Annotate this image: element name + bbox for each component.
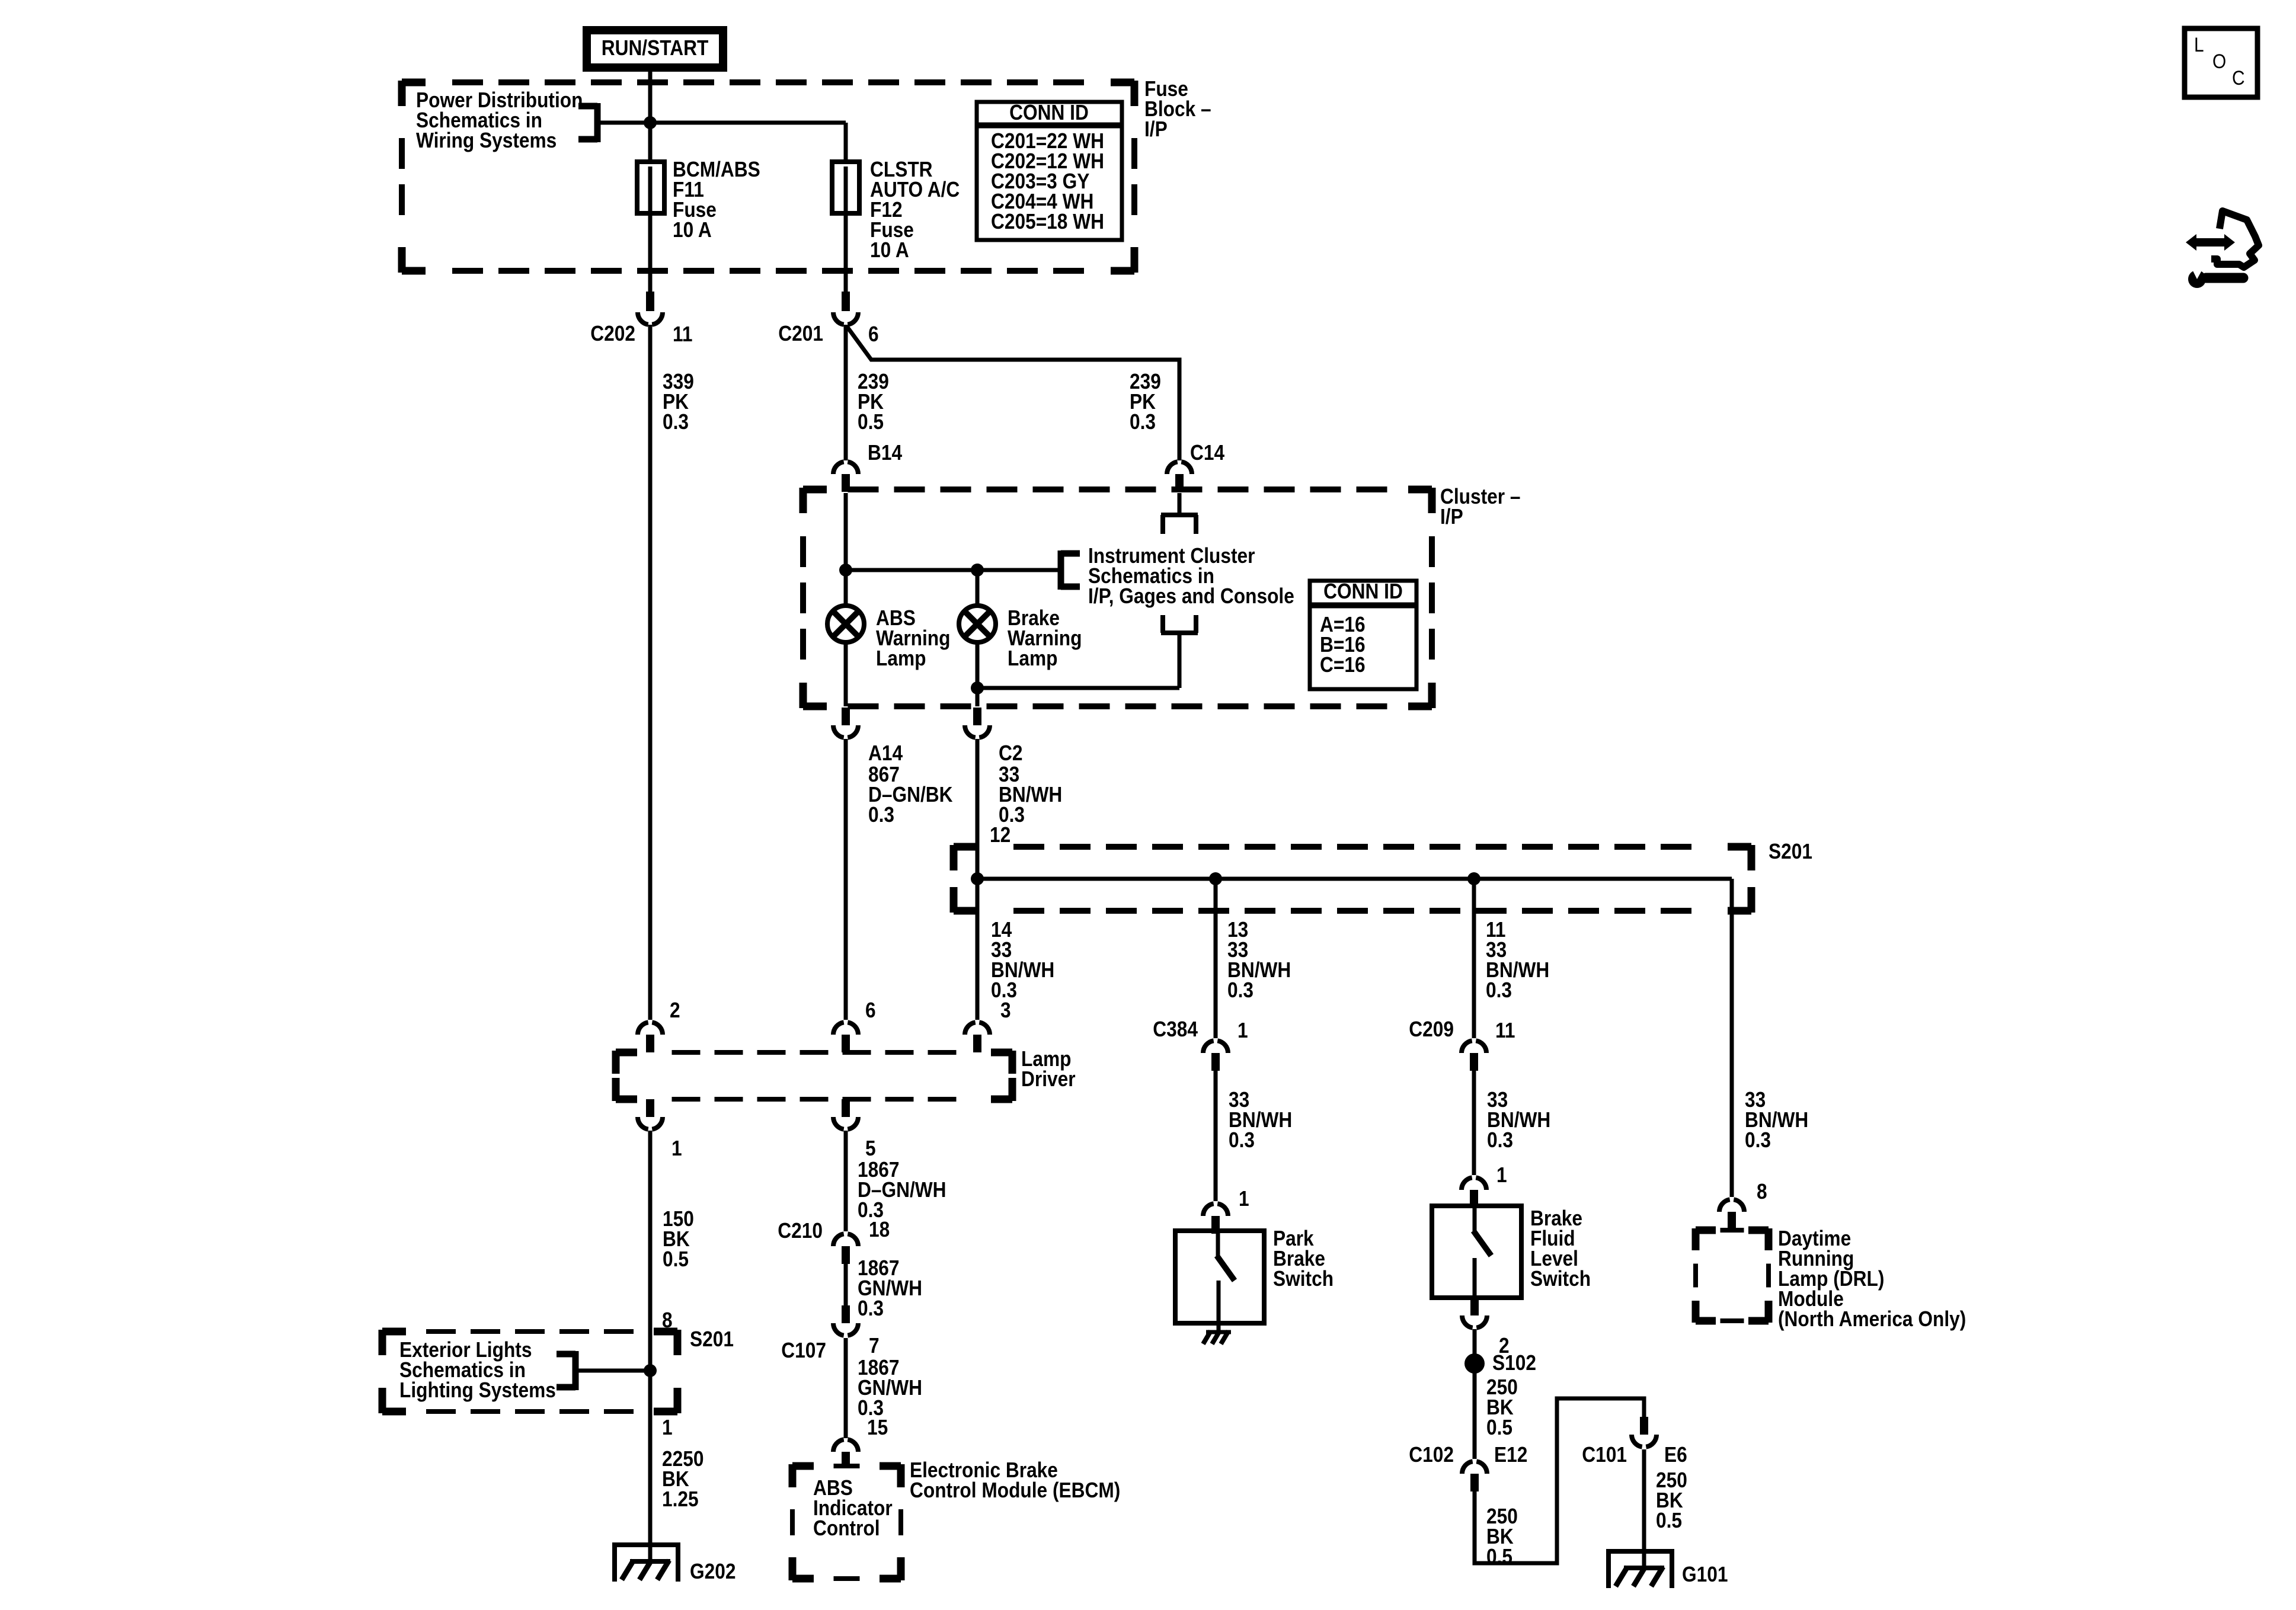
connector C209 pin 11 [1462, 1041, 1486, 1071]
wire C210 to C107 [844, 1264, 848, 1305]
park brake switch contacts [1217, 1231, 1235, 1331]
connector C14 [1167, 462, 1192, 492]
label Fuse Block - I/P [1144, 77, 1211, 141]
connector lamp driver pin 5 [833, 1099, 858, 1129]
svg-text:RUN/START: RUN/START [602, 36, 709, 60]
label E6 [1664, 1443, 1687, 1467]
label pin 1 (below S201) [662, 1416, 673, 1439]
label C102 [1409, 1443, 1454, 1467]
connector fork under C14 [1161, 493, 1198, 534]
wire 867 D-GN/BK [844, 739, 848, 1020]
connector C101 E6 [1632, 1417, 1657, 1447]
svg-text:18: 18 [869, 1218, 890, 1241]
label pin 6 (lamp driver) [865, 998, 876, 1022]
fuse block CONN ID table [977, 101, 1122, 240]
label 33 BN/WH 0.3 (brake fluid) [1487, 1088, 1550, 1152]
wire 239 PK 0.5 to cluster B14 [844, 325, 848, 460]
svg-text:CONN ID: CONN ID [1009, 101, 1089, 124]
svg-text:L: L [2194, 33, 2204, 56]
svg-text:0.3: 0.3 [1745, 1128, 1771, 1152]
label 239 PK 0.3 (C14 branch) [1130, 370, 1161, 434]
label 250 BK 0.5 (upper) [1486, 1375, 1518, 1439]
wire fuse F12 to connector C201 [842, 213, 850, 311]
ABS warning lamp [827, 570, 864, 706]
svg-text:Wiring Systems: Wiring Systems [416, 129, 557, 152]
wire pin5 to C210 [844, 1131, 848, 1231]
svg-text:15: 15 [867, 1416, 888, 1439]
svg-text:1: 1 [1237, 1019, 1248, 1042]
label 2250 BK 1.25 [662, 1447, 703, 1511]
svg-text:C107: C107 [781, 1339, 826, 1362]
label pin 8 (DRL) [1757, 1180, 1767, 1204]
svg-text:C210: C210 [778, 1219, 823, 1243]
svg-text:11: 11 [1495, 1019, 1515, 1042]
cluster - I/P dashed box [803, 488, 1432, 708]
connector lamp driver pin 3 [965, 1022, 990, 1052]
wire S201 through box [648, 1331, 653, 1411]
label pin 8 (S201) [662, 1308, 673, 1332]
node junction bus to brake fluid [1467, 872, 1480, 885]
wire 2250 BK to ground [648, 1411, 653, 1545]
wire C384 to park brake switch [1214, 1071, 1218, 1201]
svg-text:C: C [2232, 66, 2245, 89]
svg-text:0.5: 0.5 [1656, 1509, 1682, 1532]
bracket to instrument cluster schematics [1061, 550, 1080, 590]
connector brake fluid switch pin 1 [1462, 1177, 1486, 1208]
cluster CONN ID table [1310, 580, 1416, 689]
ground G202 [612, 1545, 680, 1582]
svg-text:C101: C101 [1582, 1443, 1627, 1467]
connector C107 pin 7 [833, 1305, 858, 1336]
label 339 PK 0.3 [663, 370, 694, 434]
label pin 2 [670, 998, 680, 1022]
label 250 BK 0.5 (E6) [1656, 1468, 1687, 1532]
node junction brake lamp wire [971, 681, 984, 694]
svg-text:I/P: I/P [1440, 505, 1463, 529]
svg-text:10 A: 10 A [870, 238, 909, 262]
label 1867 GN/WH 0.3 (upper) [858, 1256, 922, 1320]
svg-text:8: 8 [1757, 1180, 1767, 1204]
connector DRL pin 8 [1719, 1199, 1744, 1230]
label C14 [1190, 441, 1224, 465]
svg-text:Control Module (EBCM): Control Module (EBCM) [910, 1478, 1120, 1502]
fuse block - I/P dashed box [402, 81, 1134, 273]
connector brake fluid switch pin 2 [1462, 1298, 1487, 1328]
label pin 1 (brake fluid switch) [1496, 1163, 1507, 1187]
svg-text:S201: S201 [1769, 840, 1812, 863]
wire bracket to splice [575, 1369, 650, 1373]
svg-text:C202: C202 [590, 322, 635, 345]
connector lamp driver pin 1 [638, 1099, 663, 1129]
splice bus wire [977, 879, 1732, 1197]
node junction bus to park brake [1209, 872, 1222, 885]
svg-text:I/P: I/P [1144, 117, 1168, 141]
svg-text:CONN ID: CONN ID [1323, 580, 1403, 603]
svg-text:0.3: 0.3 [858, 1297, 884, 1320]
svg-text:1: 1 [1496, 1163, 1507, 1187]
label pin 7 (C107) [869, 1334, 880, 1358]
svg-text:0.3: 0.3 [1227, 978, 1253, 1002]
connector C201 pin 6 [833, 312, 858, 325]
svg-text:0.3: 0.3 [1130, 410, 1156, 434]
svg-text:0.5: 0.5 [858, 410, 884, 434]
svg-text:6: 6 [865, 998, 876, 1022]
fuse F11 [637, 162, 664, 213]
splice S102 [1464, 1353, 1485, 1374]
connector C2 pin 12 [965, 708, 990, 738]
svg-text:C14: C14 [1190, 441, 1224, 465]
label 1867 GN/WH 0.3 (lower) [858, 1356, 922, 1420]
label C202 [590, 322, 635, 345]
svg-text:11: 11 [673, 322, 692, 346]
label pin 5 (lamp driver) [865, 1137, 876, 1160]
svg-text:S102: S102 [1492, 1351, 1536, 1375]
svg-text:I/P, Gages and Console: I/P, Gages and Console [1088, 584, 1294, 608]
label S201 (left) [690, 1327, 734, 1351]
label Brake Warning Lamp [1008, 606, 1082, 670]
svg-text:0.5: 0.5 [1486, 1416, 1512, 1439]
wire C107 to EBCM [844, 1338, 848, 1438]
svg-text:1: 1 [1239, 1187, 1249, 1211]
label C2 [999, 741, 1022, 765]
label 33 BN/WH 0.3 12 [990, 763, 1062, 847]
wire E6 to ground G101 [1642, 1449, 1646, 1551]
label Park Brake Switch [1273, 1227, 1334, 1291]
label ABS Warning Lamp [876, 606, 950, 670]
svg-text:Switch: Switch [1530, 1267, 1591, 1291]
label 13 33 BN/WH 0.3 [1227, 918, 1291, 1002]
wire C209 to brake fluid switch [1472, 1071, 1476, 1175]
svg-text:5: 5 [865, 1137, 876, 1160]
svg-text:2: 2 [670, 998, 680, 1022]
svg-text:S201: S201 [690, 1327, 734, 1351]
svg-text:E6: E6 [1664, 1443, 1687, 1467]
svg-text:1: 1 [662, 1416, 673, 1439]
label Exterior Lights Schematics [399, 1338, 556, 1402]
connector C210 pin 18 [833, 1234, 858, 1264]
ground below park brake switch [1203, 1331, 1231, 1344]
node junction bus at C2 wire [971, 872, 984, 885]
svg-text:C=16: C=16 [1320, 653, 1366, 677]
wire fuse F11 to connector C202 [646, 213, 654, 311]
ground G101 [1606, 1551, 1674, 1588]
service manual icon [2186, 211, 2259, 288]
DRL module dashed box [1696, 1228, 1769, 1323]
bracket to exterior lights schematics [557, 1351, 575, 1390]
label 250 BK 0.5 (lower) [1486, 1505, 1518, 1569]
connector lamp driver pin 6 [833, 1022, 858, 1052]
label 150 BK 0.5 [663, 1207, 694, 1271]
svg-text:0.5: 0.5 [663, 1247, 689, 1271]
label Cluster - I/P [1440, 485, 1520, 529]
lamp driver dashed box [616, 1051, 1012, 1101]
wire RUN/START down to fuse F11 [648, 68, 653, 164]
brake fluid level switch box [1432, 1206, 1521, 1298]
label C384 [1153, 1017, 1198, 1041]
svg-text:C384: C384 [1153, 1017, 1198, 1041]
label Instrument Cluster Schematics [1088, 544, 1294, 608]
svg-text:0.3: 0.3 [663, 410, 689, 434]
connector fork to brake lamp branch [977, 615, 1198, 688]
label CLSTR AUTO A/C F12 Fuse 10 A [870, 158, 960, 262]
label pin 6 [868, 322, 879, 346]
EBCM ABS indicator control dashed box [792, 1464, 901, 1580]
power rail RUN/START box [587, 30, 723, 68]
connector A14 [833, 708, 858, 738]
svg-text:C2: C2 [999, 741, 1022, 765]
label Power Distribution Schematics in Wiring Systems [416, 88, 583, 152]
brake fluid switch contacts [1473, 1206, 1491, 1298]
LOC legend box [2185, 28, 2257, 97]
svg-text:G202: G202 [690, 1560, 736, 1583]
svg-text:Driver: Driver [1021, 1067, 1076, 1091]
connector C202 pin 11 [638, 312, 663, 325]
svg-text:12: 12 [990, 823, 1011, 847]
connector B14 [833, 462, 858, 492]
wire S102 to C102 [1473, 1378, 1477, 1459]
node junction brake lamp top [971, 564, 984, 577]
label E12 [1494, 1443, 1527, 1467]
node junction on RUN/START feed [644, 116, 657, 129]
svg-text:Lamp: Lamp [876, 646, 926, 670]
label pin 15 (EBCM) [867, 1416, 888, 1439]
label G101 [1682, 1563, 1728, 1586]
connector C384 pin 1 [1203, 1041, 1228, 1071]
wire bus to C209 [1472, 879, 1476, 1038]
label Lamp Driver [1021, 1047, 1076, 1091]
svg-text:C201: C201 [778, 322, 823, 345]
svg-text:3: 3 [1000, 998, 1011, 1022]
node junction ABS lamp [839, 564, 852, 577]
svg-text:6: 6 [868, 322, 879, 346]
svg-text:C209: C209 [1409, 1017, 1454, 1041]
label 11 33 BN/WH 0.3 [1486, 918, 1549, 1002]
label pin 11 (C209) [1495, 1019, 1515, 1042]
label 867 D-GN/BK 0.3 [868, 763, 953, 827]
label C107 [781, 1339, 826, 1362]
label Electronic Brake Control Module (EBCM) [910, 1458, 1120, 1502]
label Daytime Running Lamp (DRL) Module [1778, 1227, 1966, 1331]
svg-text:Control: Control [813, 1516, 880, 1540]
svg-text:1: 1 [671, 1137, 682, 1160]
label 33 BN/WH 0.3 (park) [1229, 1088, 1292, 1152]
label S102 [1492, 1351, 1536, 1375]
svg-text:7: 7 [869, 1334, 880, 1358]
connector park brake switch pin 1 [1203, 1204, 1228, 1234]
fuse F12 [832, 162, 859, 213]
wire bus to C384 [1214, 879, 1218, 1038]
splice S201 dashed box [954, 845, 1751, 913]
brake warning lamp [959, 570, 996, 706]
label A14 [868, 741, 903, 765]
wire feed down to fuse F12 [844, 123, 848, 164]
label pin 3 [1000, 998, 1011, 1022]
wire 150 BK to S201 splice [648, 1131, 653, 1331]
park brake switch box [1175, 1231, 1264, 1323]
label C101 [1582, 1443, 1627, 1467]
label 5 1867 D-GN/WH 0.3 [858, 1158, 946, 1222]
wire feed from power distribution [597, 121, 846, 125]
svg-text:Lamp: Lamp [1008, 646, 1057, 670]
label pin 1 (park brake switch) [1239, 1187, 1249, 1211]
wire branch C201 to C14 [847, 327, 1179, 460]
label ABS Indicator Control [813, 1476, 893, 1540]
wire 339 PK from C202 to lamp driver [648, 325, 653, 1020]
svg-text:C102: C102 [1409, 1443, 1454, 1467]
svg-text:G101: G101 [1682, 1563, 1728, 1586]
connector EBCM pin 15 [833, 1439, 858, 1467]
label 18 [869, 1218, 890, 1241]
svg-text:E12: E12 [1494, 1443, 1527, 1467]
svg-text:A14: A14 [868, 741, 903, 765]
svg-text:1.25: 1.25 [662, 1487, 699, 1511]
connector lamp driver pin 2 [638, 1022, 663, 1052]
bracket to power distribution schematics [578, 103, 597, 142]
svg-text:0.3: 0.3 [868, 803, 894, 827]
label pin 11 [673, 322, 692, 346]
svg-text:C205=18 WH: C205=18 WH [991, 210, 1104, 233]
label B14 [868, 441, 902, 465]
node junction S201 splice [644, 1364, 657, 1377]
wire switch to S102 [1473, 1329, 1477, 1378]
label pin 1 (lamp driver) [671, 1137, 682, 1160]
wire C102 to C101 routing [1475, 1398, 1644, 1563]
label C209 [1409, 1017, 1454, 1041]
svg-text:10 A: 10 A [673, 218, 712, 242]
splice S201 dashed box (exterior lights) [382, 1330, 677, 1413]
svg-text:(North America Only): (North America Only) [1778, 1307, 1966, 1331]
label 239 PK 0.5 [858, 370, 889, 434]
wire 33 BN/WH from C2 [976, 739, 980, 1020]
wire B14 into cluster to lamps bus [846, 493, 1061, 570]
connector C102 E12 [1462, 1461, 1487, 1491]
label C210 [778, 1219, 823, 1243]
svg-text:0.3: 0.3 [1487, 1128, 1513, 1152]
label G202 [690, 1560, 736, 1583]
label Brake Fluid Level Switch [1530, 1206, 1591, 1291]
label pin 2 (below switch) [1499, 1334, 1510, 1358]
label BCM/ABS F11 Fuse 10 A [673, 158, 760, 242]
svg-text:B14: B14 [868, 441, 902, 465]
svg-text:O: O [2212, 50, 2226, 72]
label 14 33 BN/WH 0.3 [991, 918, 1054, 1002]
svg-text:0.3: 0.3 [1229, 1128, 1255, 1152]
svg-text:0.3: 0.3 [1486, 978, 1512, 1002]
svg-text:Switch: Switch [1273, 1267, 1334, 1291]
label pin 1 (C384) [1237, 1019, 1248, 1042]
label 33 BN/WH 0.3 (DRL) [1745, 1088, 1808, 1152]
label C201 [778, 322, 823, 345]
svg-text:Lighting Systems: Lighting Systems [399, 1378, 556, 1402]
label S201 [1769, 840, 1812, 863]
